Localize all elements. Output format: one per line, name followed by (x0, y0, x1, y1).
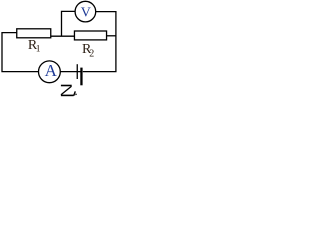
wire: ammeter right lead to battery (60, 71, 80, 73)
svg-text:A: A (45, 61, 58, 80)
caption 乙 (figure B) drawn as strokes (61, 86, 77, 96)
wire: R2 right lead (107, 35, 116, 37)
battery BT1 short thick plate (80, 68, 82, 86)
svg-text:1: 1 (36, 45, 41, 55)
voltmeter U1 circle (75, 1, 96, 22)
wire: R1 right lead to R2 left lead (51, 35, 75, 37)
ammeter U2 circle (39, 61, 61, 83)
svg-text:2: 2 (89, 48, 94, 59)
wire: junction vertical up to voltmeter, voltmeter left lead (62, 11, 76, 36)
resistor R1 (17, 29, 51, 38)
battery BT1 long plate (76, 64, 78, 79)
svg-text:V: V (81, 6, 91, 21)
wire: voltmeter right lead, right vertical, bottom wire to battery (83, 12, 116, 72)
wire: left loop (R1 left lead, left vertical, bottom wire to ammeter) (2, 33, 39, 72)
resistor R2 (74, 31, 106, 40)
